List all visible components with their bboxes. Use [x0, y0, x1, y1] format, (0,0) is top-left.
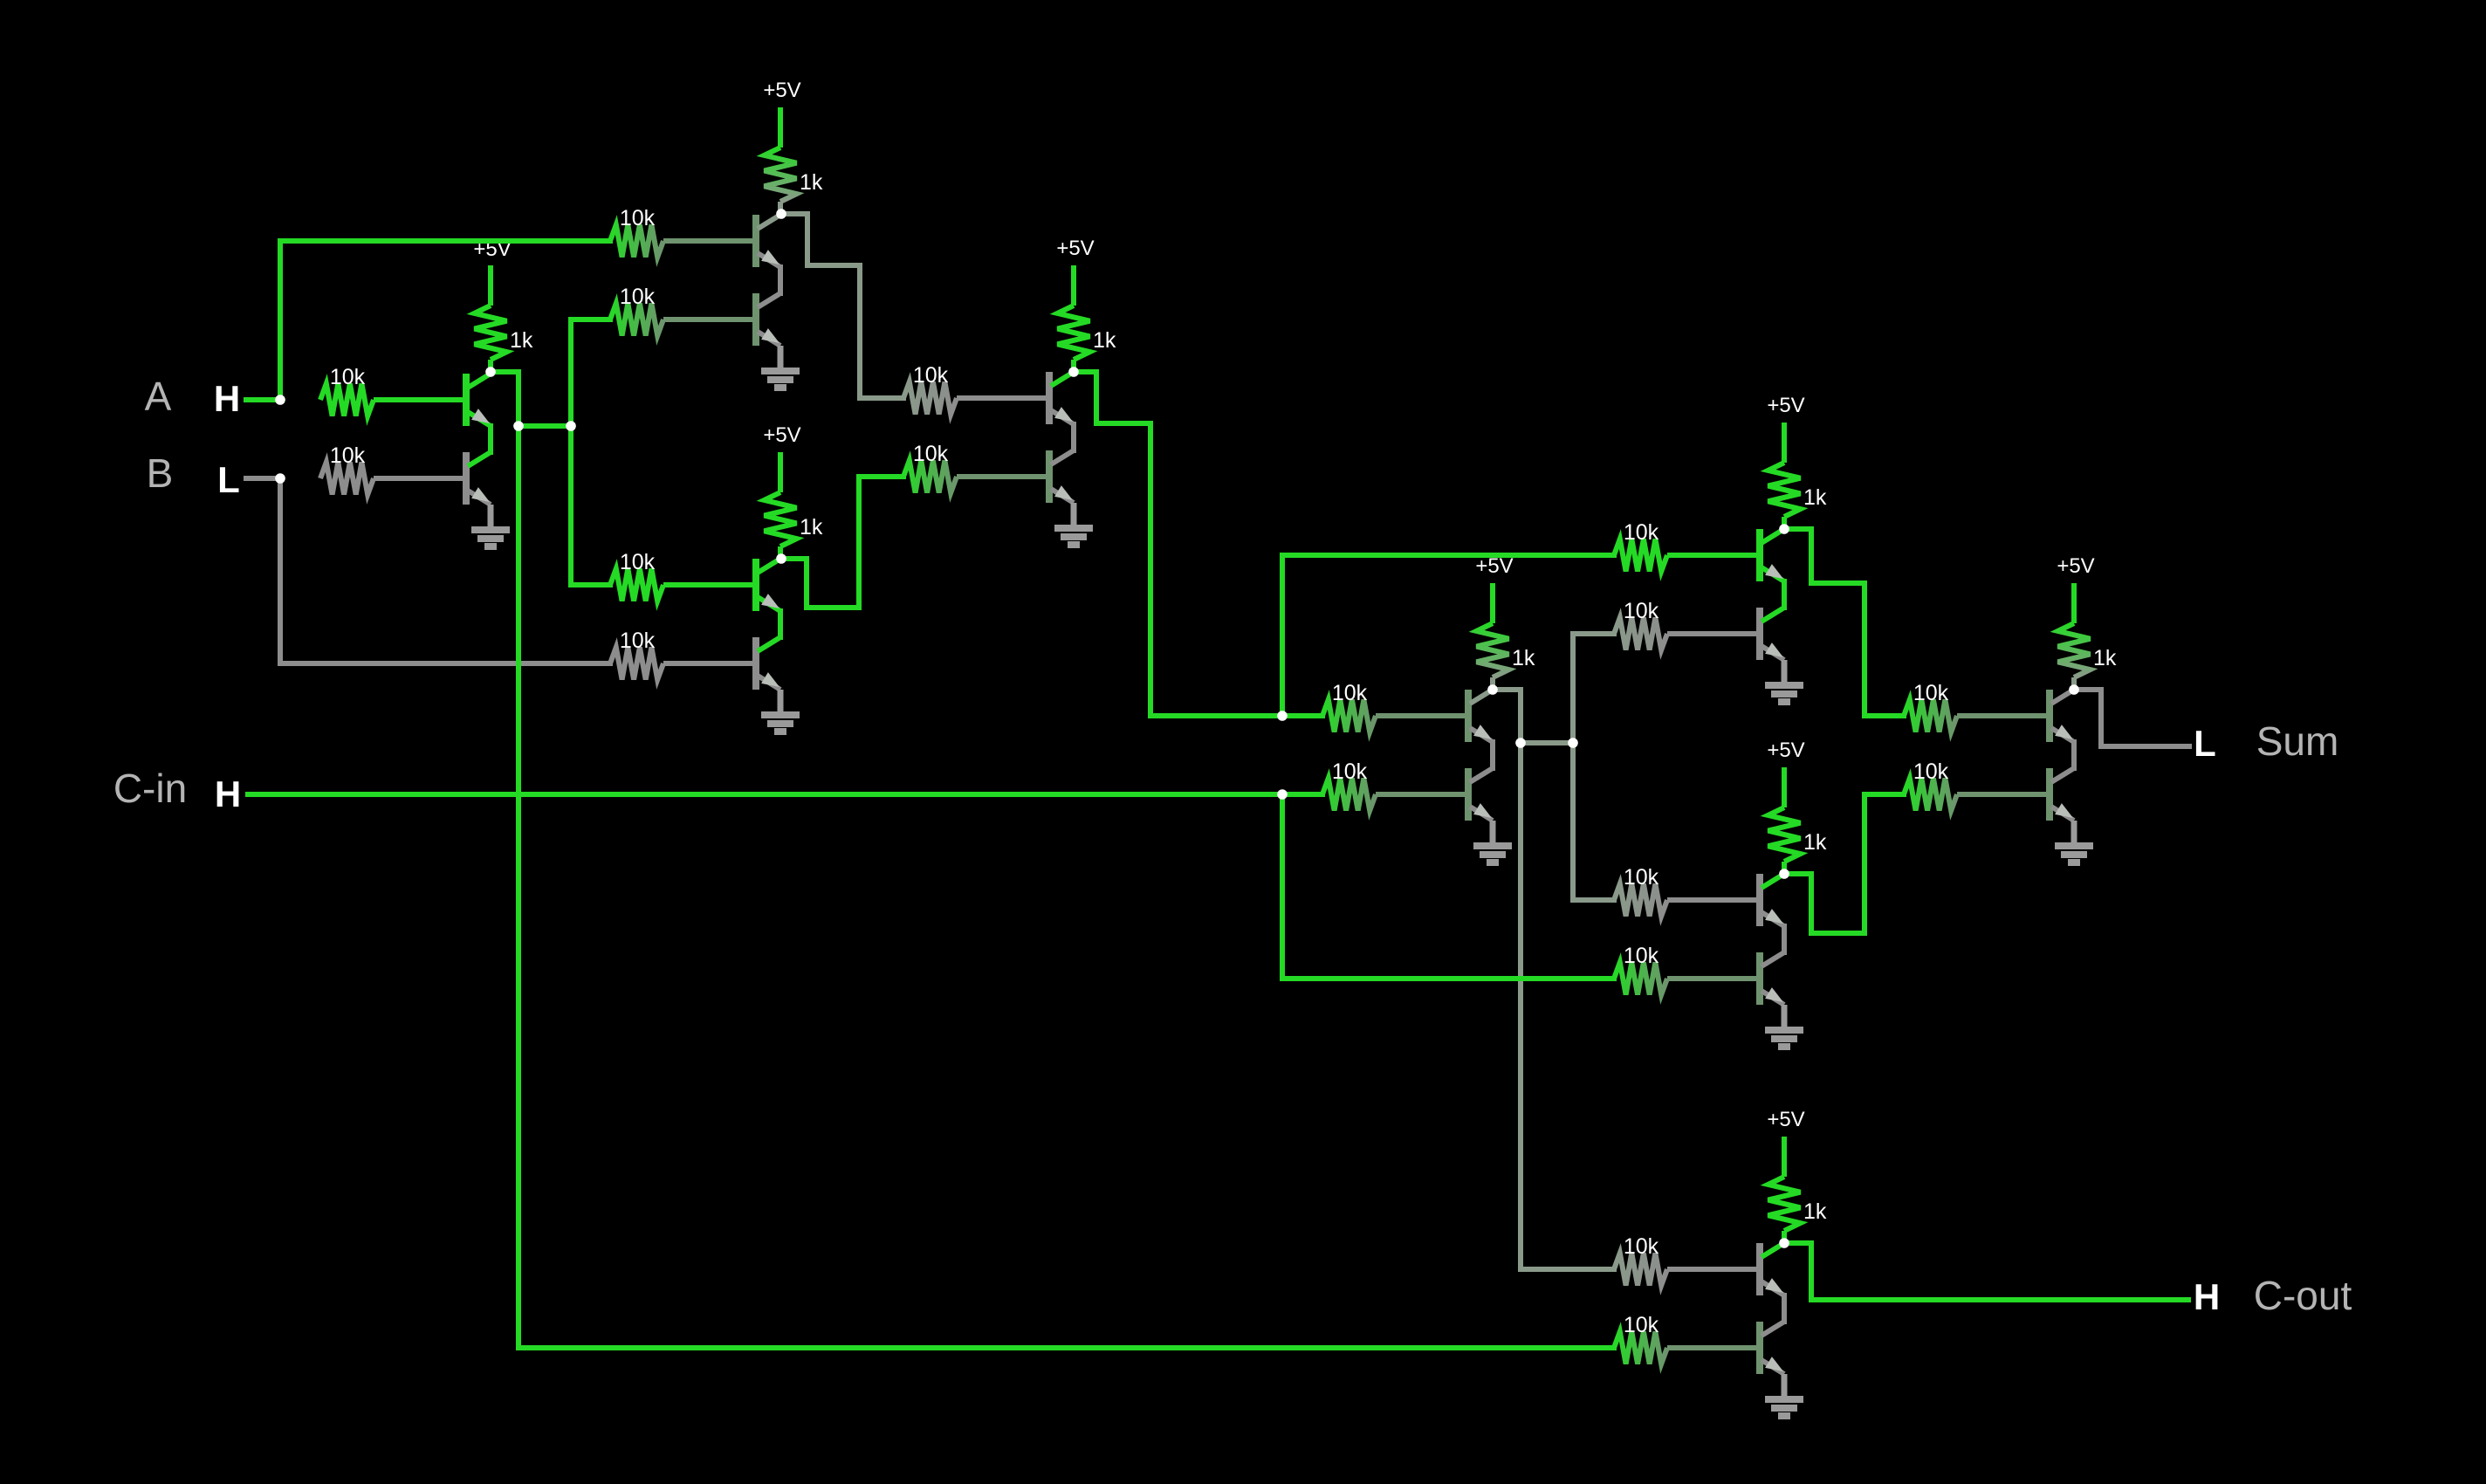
svg-text:+5V: +5V [2057, 554, 2094, 578]
wire emitter-collector link [1782, 1295, 1787, 1322]
svg-text:1k: 1k [1803, 485, 1827, 510]
svg-text:10k: 10k [1624, 1234, 1659, 1259]
node B (junction) [275, 473, 285, 484]
wire emitter-collector link [1782, 581, 1787, 608]
svg-text:10k: 10k [1624, 1313, 1659, 1337]
transistor Q13 (NPN) [1760, 874, 1784, 926]
resistor 1k pullup of gate G_M [1058, 306, 1116, 372]
wire N1 from G1 collector [491, 369, 518, 374]
resistor R15 10k (G5 out to Q15 base) [1904, 681, 2050, 732]
node G4 net right (junction) [1568, 738, 1578, 748]
transistor Q8 (NPN) [1049, 450, 1074, 503]
label net A [145, 374, 172, 419]
power +5V supply for gate G_M [1056, 237, 1094, 306]
ground (gate G_M) [1054, 503, 1093, 545]
svg-text:C-out: C-out [2254, 1273, 2352, 1318]
svg-text:1k: 1k [1803, 830, 1827, 855]
svg-text:10k: 10k [913, 363, 949, 388]
ground (gate G5b) [1765, 1005, 1803, 1047]
node X1 branch (junction) [1277, 711, 1288, 721]
wire node B down [278, 478, 283, 663]
svg-text:10k: 10k [620, 285, 656, 309]
node G5 output (junction) [1779, 524, 1789, 534]
svg-text:1k: 1k [1512, 646, 1535, 670]
resistor R5 10k (N1 to Q5 base) [610, 550, 756, 601]
label state L of B [217, 459, 240, 500]
node G7 output (C-out) (junction) [1779, 1238, 1789, 1248]
wire G4 output bridge [1521, 740, 1573, 745]
resistor R18 10k (N1 to Q18 base) [1614, 1313, 1760, 1364]
resistor R12 10k (G4 out to Q12 base) [1614, 599, 1760, 650]
label net C-in [113, 766, 187, 811]
resistor R2 10k (B to Q2 base) [320, 443, 466, 495]
resistor 1k pullup of gate G5 [1768, 463, 1827, 529]
svg-text:H: H [215, 773, 241, 814]
node G5b output (junction) [1779, 869, 1789, 879]
resistor R6 10k (B to Q6 base) [610, 629, 756, 680]
transistor Q3 (NPN) [756, 215, 780, 267]
svg-text:1k: 1k [2093, 646, 2117, 670]
transistor Q11 (NPN) [1760, 529, 1784, 581]
svg-text:L: L [217, 459, 240, 500]
transistor Q6 (NPN) [756, 637, 780, 690]
wire X1 up branch [1280, 555, 1285, 716]
wire G4 output [1493, 690, 1521, 743]
node G4 net left (junction) [1515, 738, 1526, 748]
svg-text:+5V: +5V [1767, 1108, 1804, 1131]
svg-text:10k: 10k [620, 550, 656, 574]
wire node A to R3 [280, 238, 610, 244]
svg-text:10k: 10k [330, 365, 366, 389]
wire emitter-collector link [1071, 424, 1076, 450]
svg-text:10k: 10k [1624, 944, 1659, 968]
node X1 (G_M output) (junction) [1068, 367, 1079, 377]
node G4 output (junction) [1487, 684, 1498, 695]
resistor R3 10k (A to Q3 base) [610, 206, 756, 258]
power +5V supply for gate G4 [1475, 554, 1513, 623]
transistor Q7 (NPN) [1049, 372, 1074, 424]
svg-text:10k: 10k [330, 443, 366, 468]
resistor R9 10k (X1 to Q9 base) [1322, 681, 1468, 732]
wire G2 output to R7 [781, 214, 903, 398]
power +5V supply for gate G3 [763, 423, 800, 492]
svg-text:H: H [2194, 1276, 2220, 1317]
wire G4 output to R12 [1573, 634, 1614, 743]
power +5V supply for gate G7 [1767, 1108, 1804, 1177]
svg-text:10k: 10k [1624, 520, 1659, 545]
wire X1 from G_M output [1074, 372, 1322, 716]
power +5V supply for gate G1 [473, 237, 511, 306]
resistor 1k pullup of gate G6 [2058, 623, 2117, 690]
svg-text:B: B [147, 450, 174, 496]
wire emitter-collector link [2071, 742, 2077, 768]
wire G5 output to R15 [1784, 529, 1904, 716]
wire emitter-collector link [488, 426, 493, 452]
resistor R8 10k (G3 out to Q8 base) [903, 442, 1049, 493]
wire input B stub [246, 476, 280, 481]
label net C-out [2254, 1273, 2352, 1318]
wire C-out output [1784, 1243, 2188, 1300]
transistor Q5 (NPN) [756, 559, 780, 611]
node G2 output (junction) [776, 209, 786, 219]
svg-text:A: A [145, 374, 172, 419]
svg-text:Sum: Sum [2256, 718, 2339, 764]
resistor 1k pullup of gate G4 [1477, 623, 1535, 690]
transistor Q15 (NPN) [2050, 690, 2074, 742]
transistor Q12 (NPN) [1760, 608, 1784, 660]
resistor 1k pullup of gate G7 [1768, 1177, 1827, 1243]
power +5V supply for gate G1a [488, 265, 493, 306]
resistor R7 10k (G2 out to Q7 base) [903, 363, 1049, 415]
power +5V supply for gate G6 [2057, 554, 2094, 623]
node J1 (junction) [513, 421, 524, 431]
transistor Q18 (NPN) [1760, 1322, 1784, 1374]
ground (gate G4) [1473, 821, 1512, 862]
resistor 1k pullup of gate G1a [475, 306, 533, 372]
ground (gate G6) [2055, 821, 2093, 862]
wire N1 branch vertical [568, 319, 573, 585]
wire G3 output to R8 [781, 477, 903, 608]
svg-text:10k: 10k [1624, 865, 1659, 890]
label net Sum [2256, 718, 2339, 764]
svg-text:10k: 10k [620, 629, 656, 653]
node C-in branch (junction) [1277, 789, 1288, 800]
wire node A up [278, 241, 283, 400]
resistor R17 10k (G4 out to Q17 base) [1614, 1234, 1760, 1286]
wire G5b output to R16 [1784, 794, 1904, 933]
transistor Q1 (NPN) [466, 374, 491, 426]
wire node B to R6 [280, 661, 610, 666]
svg-text:10k: 10k [1332, 759, 1368, 784]
wire emitter-collector link [778, 267, 783, 293]
wire C-in to R14 [1282, 976, 1614, 981]
ground (gate G2) [761, 346, 800, 388]
transistor Q10 (NPN) [1468, 768, 1493, 821]
resistor R11 10k (X1 to Q11 base) [1614, 520, 1760, 572]
power +5V supply for gate G5b [1767, 739, 1804, 807]
resistor R16 10k (G5b out to Q16 base) [1904, 759, 2050, 811]
ground (gate G7) [1765, 1374, 1803, 1416]
node J2 (junction) [566, 421, 576, 431]
svg-text:10k: 10k [913, 442, 949, 466]
node G6 output (Sum) (junction) [2069, 684, 2079, 695]
resistor R10 10k (C-in to Q10 base) [1322, 759, 1468, 811]
wire input A stub [246, 397, 280, 402]
wire emitter-collector link [1490, 742, 1495, 768]
wire emitter-collector link [778, 611, 783, 637]
svg-text:+5V: +5V [1475, 554, 1513, 578]
svg-text:1k: 1k [1803, 1199, 1827, 1224]
label state L of Sum [2194, 723, 2216, 764]
ground (gate G3) [761, 690, 800, 732]
transistor Q2 (NPN) [466, 452, 491, 505]
label net B [147, 450, 174, 496]
svg-text:+5V: +5V [763, 423, 800, 447]
svg-text:10k: 10k [620, 206, 656, 230]
svg-text:+5V: +5V [1767, 739, 1804, 762]
resistor R13 10k (G4 out to Q13 base) [1614, 865, 1760, 917]
wire emitter-collector link [1782, 926, 1787, 952]
resistor R1 10k (A to Q1 base) [320, 365, 466, 416]
transistor Q4 (NPN) [756, 293, 780, 346]
wire N1 to R18 [518, 1345, 1614, 1350]
svg-text:+5V: +5V [1767, 394, 1804, 417]
label state H of A [214, 378, 240, 419]
transistor Q17 (NPN) [1760, 1243, 1784, 1295]
svg-text:1k: 1k [800, 515, 823, 539]
transistor Q14 (NPN) [1760, 952, 1784, 1005]
transistor Q16 (NPN) [2050, 768, 2074, 821]
wire G4 output to R17 [1521, 743, 1614, 1269]
label state H of C-out [2194, 1276, 2220, 1317]
node G3 output (junction) [776, 553, 786, 564]
wire G4 output to R13 [1573, 743, 1614, 900]
svg-text:10k: 10k [1624, 599, 1659, 623]
svg-text:1k: 1k [800, 170, 823, 195]
label state H of C-in [215, 773, 241, 814]
svg-text:+5V: +5V [763, 79, 800, 102]
wire N1 to R4 [571, 317, 610, 322]
ground (gate G5) [1765, 660, 1803, 702]
resistor R4 10k (N1 to Q4 base) [610, 285, 756, 336]
svg-text:H: H [214, 378, 240, 419]
svg-text:L: L [2194, 723, 2216, 764]
wire N1 long vertical [516, 372, 521, 1348]
transistor Q9 (NPN) [1468, 690, 1493, 742]
svg-text:C-in: C-in [113, 766, 187, 811]
wire J1-J2 [518, 423, 571, 429]
node N1 (G1 collector) (junction) [485, 367, 496, 377]
node A (junction) [275, 395, 285, 405]
svg-text:10k: 10k [1913, 759, 1949, 784]
wire X1 to R11 [1282, 553, 1614, 558]
wire Sum output [2074, 690, 2189, 746]
svg-text:+5V: +5V [1056, 237, 1094, 260]
resistor R14 10k (C-in to Q14 base) [1614, 944, 1760, 995]
svg-text:1k: 1k [510, 328, 533, 353]
resistor 1k pullup of gate G2 [765, 148, 823, 214]
power +5V supply for gate G5 [1767, 394, 1804, 463]
wire N1 to R5 [571, 582, 610, 587]
wire input C-in [248, 792, 1322, 797]
ground (gate G1) [471, 505, 510, 546]
wire C-in down branch [1280, 794, 1285, 979]
resistor 1k pullup of gate G5b [1768, 807, 1827, 874]
resistor 1k pullup of gate G3 [765, 492, 823, 559]
svg-text:1k: 1k [1093, 328, 1116, 353]
power +5V supply for gate G2 [763, 79, 800, 148]
svg-text:10k: 10k [1332, 681, 1368, 705]
svg-text:10k: 10k [1913, 681, 1949, 705]
